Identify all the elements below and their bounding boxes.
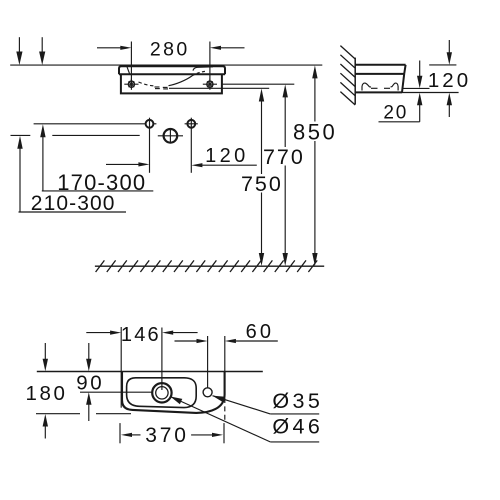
fixing bolt symbol left (124, 79, 138, 90)
svg-text:20: 20 (383, 102, 408, 123)
dim 210-300 up arrow (19, 148, 21, 213)
svg-text:146: 146 (121, 324, 161, 346)
basin interior edge left (in rim) (127, 67, 130, 74)
dim 370 extension tick left (119, 423, 121, 443)
dim 60 arrow left (175, 340, 198, 342)
reference line at bolt level for dim 770 (222, 83, 294, 85)
dim 280 arrow right (221, 47, 245, 49)
plan view overflow small hole (203, 388, 212, 397)
basin front view body outline (121, 74, 222, 93)
dim 90 up arrow (88, 404, 90, 422)
svg-text:Ø35: Ø35 (272, 389, 323, 413)
dim 170-300 right arrow (106, 163, 139, 165)
side view interior hidden profile left hump (362, 83, 371, 90)
plan extension line basin right edge dashed (224, 398, 226, 422)
dim 120 side up arrow (448, 104, 450, 117)
plan extension line basin right edge upper (224, 336, 226, 371)
dim 120 side down arrow (448, 40, 450, 54)
dim 770 text (263, 147, 304, 166)
side view wall hatching (340, 46, 355, 105)
floor line (95, 265, 324, 267)
dim 90 down arrow (88, 343, 90, 360)
side view inner bottom reference line (402, 87, 430, 89)
wall-fixing down arrow 2 (41, 37, 43, 53)
side view wall line (354, 58, 356, 105)
dim 146 arrow left (86, 332, 110, 334)
dim 280 arrow left (97, 47, 121, 49)
dim 370 extension tick right (223, 423, 225, 443)
leader diameter 35 (213, 396, 271, 414)
basin front view rim outline (119, 66, 225, 74)
dim 20 underline (379, 121, 420, 123)
basin interior dashed curve left (139, 82, 155, 86)
plan extension line faucet center (161, 328, 163, 391)
dim 180 reference line left (36, 413, 80, 415)
plan extension line basin left edge (120, 327, 122, 408)
svg-text:750: 750 (241, 172, 283, 196)
plan view wall line (37, 371, 263, 373)
plan view faucet hole outer (152, 383, 171, 402)
hole chart datum line upper (34, 123, 146, 125)
side view rim top extension line (429, 64, 456, 66)
dim 180 reference line right (96, 413, 131, 415)
dim 20 up arrow (419, 104, 421, 122)
svg-text:120: 120 (205, 145, 249, 167)
drain hole circle (158, 128, 183, 143)
fixing bolt symbol right (203, 79, 217, 90)
hole chart datum line lower right (52, 134, 139, 136)
dim 170-300 up arrow (42, 136, 44, 191)
svg-text:60: 60 (246, 321, 275, 343)
basin interior bottom curve rising right (169, 76, 193, 86)
dim 280 extension line right (209, 42, 211, 85)
dim 850 text (292, 122, 336, 142)
dim 210-300 underline (19, 211, 127, 213)
dim 280 extension line left (130, 42, 132, 85)
dim 170-300 underline (42, 190, 154, 192)
side view interior hidden profile right hump (391, 83, 399, 90)
plan view inner bowl outline (127, 378, 197, 408)
faucet fixing hole left (146, 118, 157, 173)
dim 770 vertical line (284, 95, 286, 256)
wall-fixing down arrow 1 (18, 37, 20, 53)
svg-text:280: 280 (150, 38, 190, 60)
svg-text:370: 370 (145, 424, 188, 447)
dim 370 arrow right (191, 434, 212, 436)
dim 120 hole offset leader line (202, 164, 257, 166)
dim 60 arrow right (235, 340, 277, 342)
svg-text:90: 90 (76, 372, 104, 395)
dim 180 up arrow (44, 425, 46, 438)
basin interior edge right (in rim) (193, 67, 213, 71)
basin interior dashed curve top right (192, 71, 206, 76)
dim 146 arrow right (173, 332, 198, 334)
dim 90 reference line (faucet axis) (80, 391, 153, 393)
plan view basin outer outline (122, 372, 225, 413)
floor hatching (96, 260, 318, 272)
leader diameter 46 (170, 397, 270, 442)
dim 750 text (239, 174, 281, 193)
svg-text:Ø46: Ø46 (272, 415, 323, 439)
dim 750 vertical line (261, 99, 263, 256)
dim 20 down arrow (419, 61, 421, 78)
plan view faucet hole inner (156, 387, 168, 399)
basin interior overflow dashes (155, 86, 160, 88)
side view bottom reference line (402, 92, 459, 94)
dim 370 arrow left (132, 434, 141, 436)
hole chart datum line lower left (11, 134, 31, 136)
svg-text:850: 850 (293, 119, 337, 144)
side view basin profile (355, 65, 405, 93)
dim 850 vertical line (314, 76, 316, 256)
top reference line (basin rim level) (10, 64, 322, 66)
side view interior hidden bottom dashes (371, 87, 378, 89)
svg-text:180: 180 (25, 382, 67, 405)
svg-text:120: 120 (428, 69, 471, 92)
dim 180 down arrow (44, 343, 46, 360)
faucet fixing hole right (185, 118, 198, 173)
reference line at basin inner bottom for dim 750 (169, 87, 269, 89)
plan extension line small hole center (207, 336, 209, 388)
svg-text:770: 770 (263, 145, 305, 169)
